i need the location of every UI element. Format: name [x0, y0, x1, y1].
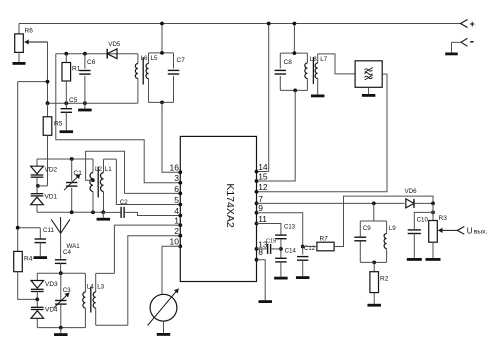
pin 1 left [174, 216, 182, 228]
wire tank1 top [37, 158, 93, 160]
svg-text:VD6: VD6 [405, 188, 418, 195]
wire R6 bottom stem [18, 52, 20, 62]
node C3 bottom [59, 326, 63, 330]
node C6 top [83, 52, 87, 56]
wire pin10 to indicator [162, 246, 180, 294]
inductor L2 [90, 159, 93, 212]
pin 11 right [255, 214, 268, 226]
ground under R2 [367, 304, 381, 307]
capacitor C13 [275, 225, 295, 259]
wire indicator ground stem [163, 321, 165, 333]
svg-text:L9: L9 [389, 225, 396, 232]
svg-text:C7: C7 [177, 57, 186, 64]
svg-text:R3: R3 [439, 215, 448, 222]
wire R3 ground stem [432, 242, 434, 258]
pin 6 left [174, 184, 182, 196]
inductor L8 [305, 53, 308, 90]
node rail pin14 riser [267, 22, 271, 26]
capacitor C10 [408, 212, 433, 258]
svg-text:C6: C6 [87, 59, 96, 66]
core L6/L5 [141, 55, 158, 85]
resistor R1 [62, 54, 81, 103]
svg-text:VD5: VD5 [108, 41, 121, 48]
pin 14 right [255, 162, 268, 174]
svg-text:11: 11 [258, 214, 267, 224]
inductor L1 [100, 159, 116, 212]
resistor R2 [370, 262, 389, 292]
wire R4 to varicap2 [18, 272, 38, 300]
wire pin2 from L3 bottom [128, 236, 181, 326]
wire L1 top to pin5 [116, 159, 180, 204]
ground under C6 [78, 103, 92, 111]
wire R7 left [303, 246, 317, 248]
svg-text:C4: C4 [63, 249, 71, 256]
node L5 bottom [160, 101, 164, 105]
wire filter to pin12 [257, 74, 388, 192]
node R2 top [372, 261, 376, 265]
wire pin11 to C13 [257, 224, 281, 236]
wire L3 bottom [96, 324, 128, 326]
node rail C8 riser [293, 22, 297, 26]
svg-text:R5: R5 [54, 121, 63, 128]
ground under C3 [54, 328, 68, 336]
svg-text:вых.: вых. [474, 229, 488, 236]
wire riser to C9 tank [373, 203, 375, 221]
svg-text:+: + [470, 19, 475, 29]
core L4/L3 [87, 284, 105, 313]
svg-text:9: 9 [258, 203, 263, 213]
wire C9 tank bottom [360, 261, 386, 263]
inductor L5 [146, 53, 149, 103]
node C11 branch [16, 226, 20, 230]
pin 5 left [174, 195, 182, 207]
node C9 riser [372, 202, 376, 206]
wire tank2 bottom [37, 327, 85, 329]
svg-text:C2: C2 [120, 199, 128, 206]
pin 15 right [255, 171, 268, 183]
wire pin13 to C15 [257, 248, 267, 250]
svg-text:10: 10 [170, 237, 180, 247]
varicap VD4 [31, 299, 58, 327]
pin 13 right [255, 239, 268, 251]
ground under C12 [296, 276, 310, 279]
wire L5/C7 bottom [149, 101, 174, 103]
svg-text:L4: L4 [87, 284, 94, 291]
inductor L6 [135, 54, 138, 103]
capacitor C14 [275, 248, 296, 276]
svg-text:VD1: VD1 [45, 194, 58, 201]
svg-text:C15: C15 [266, 238, 276, 244]
node C1 bottom [70, 210, 74, 214]
wire C2 to pin4 [124, 212, 180, 215]
pin 3 left [174, 173, 182, 185]
wire L7 to filter [318, 54, 355, 74]
resistor R7 [317, 236, 334, 251]
wire pin1 from L3 top [114, 225, 180, 273]
ground under C5 [60, 130, 74, 133]
resistor R4 [14, 251, 33, 271]
svg-text:U: U [467, 227, 473, 236]
node R5 top [46, 101, 50, 105]
svg-text:15: 15 [258, 171, 268, 181]
svg-text:L6: L6 [141, 55, 148, 62]
node L2 bottom [91, 210, 95, 214]
svg-text:6: 6 [174, 184, 179, 194]
node R1 top [64, 52, 68, 56]
svg-text:C8: C8 [284, 59, 293, 66]
svg-text:C9: C9 [363, 225, 371, 232]
svg-text:R2: R2 [380, 275, 389, 282]
svg-text:12: 12 [258, 182, 268, 192]
svg-text:VD4: VD4 [45, 307, 58, 314]
terminal - supply [452, 38, 474, 52]
svg-text:R1: R1 [72, 66, 81, 73]
terminal + supply [461, 19, 475, 29]
node C2 left [101, 210, 105, 214]
wire pin14 [257, 171, 269, 173]
pin 8 right [255, 247, 264, 262]
node VD6 out [431, 202, 435, 206]
svg-text:C3: C3 [63, 287, 71, 294]
svg-text:5: 5 [174, 195, 179, 205]
wire rail riser to L5 tank [161, 24, 163, 53]
core L2/L1 [97, 167, 99, 198]
svg-text:R4: R4 [24, 256, 33, 263]
wire pin9 [257, 213, 303, 255]
pin 16 left [170, 163, 183, 175]
wire L3 top [96, 272, 115, 274]
wire R6 wiper drop [47, 42, 49, 103]
varicap VD1 [31, 186, 58, 212]
svg-text:C10: C10 [417, 217, 429, 224]
capacitor C11 [35, 227, 55, 256]
svg-text:C14: C14 [285, 248, 297, 254]
svg-text:16: 16 [170, 163, 180, 173]
node C12 R7 junction [301, 245, 305, 249]
resistor R3 potentiometer [429, 203, 447, 242]
svg-text:C1: C1 [74, 170, 83, 177]
wire pin7 [257, 202, 405, 204]
node C6 bottom [83, 101, 87, 105]
capacitor C15 [266, 238, 281, 254]
inductor L3 [93, 273, 96, 325]
inductor L7 [315, 54, 318, 95]
svg-text:C13: C13 [284, 225, 296, 231]
svg-text:14: 14 [258, 162, 268, 172]
wire tank2 top [37, 272, 85, 274]
wire R7 to detector node [334, 196, 433, 246]
pin 10 left [170, 237, 183, 249]
svg-text:L5: L5 [151, 55, 158, 62]
wire varicap mid to R5 [38, 185, 48, 187]
node C8 tank bottom [293, 89, 297, 93]
svg-text:R7: R7 [320, 236, 329, 243]
svg-text:4: 4 [174, 206, 179, 216]
svg-text:3: 3 [174, 173, 179, 183]
wire rail riser to pin14 [268, 24, 270, 172]
svg-text:L1: L1 [105, 166, 112, 173]
resistor R6 potentiometer [15, 28, 48, 53]
svg-text:VD3: VD3 [45, 281, 58, 288]
ground under C11 [34, 256, 48, 259]
capacitor C6 [79, 54, 95, 103]
wire bottom bus y103 [48, 102, 138, 104]
svg-text:1: 1 [174, 216, 179, 226]
wire C8 tank bottom [280, 89, 307, 91]
wire y81 link [18, 81, 48, 83]
svg-text:2: 2 [174, 226, 179, 236]
ground under C14 [274, 277, 288, 280]
ground under pin8 [258, 300, 272, 303]
wire L2 tap bracket to pin6 [86, 151, 181, 193]
wire VD6 out [414, 202, 433, 204]
wire C8 tank top [280, 52, 307, 54]
node C10 branch [431, 211, 435, 215]
pin 7 right [255, 194, 264, 206]
capacitor C5 [61, 97, 78, 130]
terminal Uout [457, 227, 487, 236]
svg-text:C5: C5 [69, 97, 78, 104]
node rail L5 riser [160, 22, 164, 26]
filter ZQ1 [355, 61, 382, 88]
wire AVC drop to pin3 [56, 54, 181, 183]
varicap VD3 [31, 273, 58, 291]
ground under R6 [13, 62, 26, 65]
svg-text:VD2: VD2 [45, 167, 58, 174]
capacitor C4 [55, 249, 72, 273]
indicator PA1 [148, 289, 179, 326]
ground under filter [362, 87, 376, 97]
capacitor C2 [103, 199, 128, 218]
antenna WA1 [51, 217, 80, 260]
pin 9 right [255, 203, 264, 215]
node R6 wiper junction [46, 80, 50, 84]
node L2 tap [91, 178, 95, 182]
core L8/L7 [310, 56, 328, 84]
svg-text:C11: C11 [43, 227, 54, 234]
svg-text:L8: L8 [310, 56, 317, 63]
pin 12 right [255, 182, 268, 194]
ground under C10 [407, 258, 422, 261]
wire left bus down [17, 82, 19, 252]
node C1 top [70, 157, 74, 161]
ground under indicator [157, 333, 171, 336]
resistor R5 [43, 103, 62, 186]
wire riser to pin16 [162, 102, 180, 172]
pin 4 left [174, 206, 182, 218]
ground under R3 [426, 258, 441, 261]
capacitor C8 [275, 53, 293, 90]
svg-text:L7: L7 [320, 56, 327, 63]
node C5 top [64, 101, 68, 105]
wire riser to pin15 [257, 90, 296, 181]
ground under L7 [311, 95, 325, 98]
capacitor C9 [354, 221, 371, 262]
svg-text:R6: R6 [25, 28, 34, 35]
wiper arrow R3 [438, 228, 457, 233]
capacitor C1 variable [64, 159, 82, 212]
capacitor C7 [168, 53, 185, 103]
diode VD5 [107, 41, 121, 58]
ground under C2 node [97, 212, 111, 220]
node C8 tank top [293, 51, 297, 55]
capacitor C12 [297, 246, 316, 276]
varicap VD2 [31, 159, 58, 177]
wire L5/C7 top [149, 52, 174, 54]
label L2 L1 [95, 166, 112, 173]
diode VD6 [405, 188, 418, 208]
node L5 top [160, 51, 164, 55]
wire C11 branch [18, 227, 41, 229]
ground at - terminal [445, 53, 458, 56]
capacitor C3 variable [54, 273, 71, 327]
wire rail riser to C8 tank [293, 24, 295, 54]
wire pin8 to ground [257, 260, 266, 301]
node varicap2 mid [35, 291, 39, 301]
wire tank1 bottom [37, 211, 103, 213]
inductor L4 [83, 273, 86, 327]
inductor L9 [384, 221, 396, 262]
node varicap mid [36, 177, 40, 188]
node C13 C14 junction [279, 247, 283, 251]
wire C9 tank top [360, 220, 386, 222]
wire +supply top rail [19, 23, 461, 25]
IC U1 K174XA2 [180, 136, 256, 281]
wire AVC top [56, 53, 138, 55]
node C4 bottom [59, 271, 63, 275]
pin 2 left [174, 226, 182, 238]
wire R6 top lead [18, 24, 20, 34]
svg-text:K174XA2: K174XA2 [224, 183, 236, 228]
wire R2 ground stem [373, 293, 375, 304]
svg-text:L3: L3 [97, 284, 104, 291]
